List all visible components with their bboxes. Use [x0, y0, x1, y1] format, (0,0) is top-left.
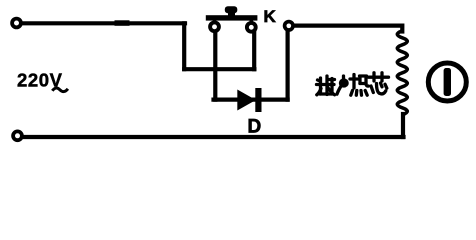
svg-text:D: D: [248, 116, 262, 137]
svg-text:K: K: [264, 7, 277, 26]
